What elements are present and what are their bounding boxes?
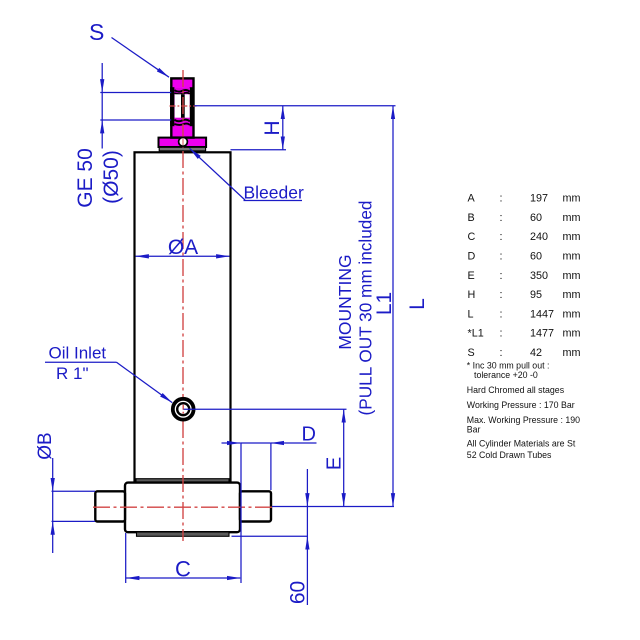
svg-text::: :	[500, 251, 503, 263]
dim L line	[392, 106, 394, 507]
svg-text:Max. Working Pressure : 190: Max. Working Pressure : 190	[467, 415, 580, 425]
svg-text:C: C	[175, 557, 191, 582]
dim OB upper shaft	[52, 458, 54, 491]
svg-text:Oil Inlet: Oil Inlet	[49, 344, 107, 363]
svg-text:tolerance +20 -0: tolerance +20 -0	[474, 370, 538, 380]
svg-text:S: S	[89, 19, 104, 45]
right trunnion pin	[240, 491, 271, 521]
svg-text:mm: mm	[563, 328, 581, 340]
svg-text:MOUNTING: MOUNTING	[335, 254, 355, 349]
svg-text:95: 95	[530, 289, 542, 301]
svg-text:L: L	[468, 308, 474, 320]
bearing bottom hatch band	[174, 118, 190, 126]
bleeder hole circle	[179, 137, 188, 146]
oil inlet port inner circle	[177, 403, 189, 415]
svg-text:ØB: ØB	[35, 432, 56, 459]
dim H bottom extension	[231, 149, 287, 151]
rod eye horizontal centerline	[170, 105, 197, 107]
svg-text:42: 42	[530, 347, 542, 359]
dim C line	[126, 577, 240, 579]
spec table	[468, 193, 581, 359]
bearing left wall	[170, 87, 174, 126]
svg-text:A: A	[468, 193, 476, 205]
svg-text:mm: mm	[563, 289, 581, 301]
dim D left shaft	[222, 442, 241, 444]
svg-text:H: H	[261, 120, 284, 135]
dim 60 lower shaft	[306, 536, 308, 605]
svg-text:60: 60	[530, 212, 542, 224]
svg-text:B: B	[468, 212, 475, 224]
svg-text:Bleeder: Bleeder	[244, 183, 304, 203]
svg-text::: :	[500, 289, 503, 301]
dim S mid line	[101, 93, 103, 121]
leader S	[112, 38, 170, 78]
svg-text:All Cylinder Materials are St: All Cylinder Materials are St	[467, 439, 576, 449]
svg-text:(PULL OUT 30 mm included: (PULL OUT 30 mm included	[356, 201, 376, 416]
left trunnion pin	[95, 491, 125, 521]
svg-text:mm: mm	[563, 231, 581, 243]
svg-text:S: S	[468, 347, 475, 359]
svg-text:60: 60	[530, 251, 542, 263]
svg-text:1477: 1477	[530, 328, 554, 340]
svg-text:mm: mm	[563, 347, 581, 359]
svg-text:* Inc 30 mm pull out :: * Inc 30 mm pull out :	[467, 360, 550, 370]
svg-text:240: 240	[530, 231, 548, 243]
dim S lower arrow shaft	[101, 120, 103, 149]
Oil Inlet underline	[45, 361, 117, 363]
svg-text:60: 60	[287, 581, 310, 604]
dim E line	[343, 409, 345, 506]
svg-text:mm: mm	[563, 193, 581, 205]
dim OB extension bottom	[52, 520, 96, 522]
notes text	[467, 360, 580, 460]
dim OB mid line	[52, 491, 54, 521]
svg-text:1447: 1447	[530, 308, 554, 320]
oil inlet port outer ring	[173, 399, 194, 420]
svg-text:mm: mm	[563, 270, 581, 282]
bearing top hatch band	[174, 88, 190, 94]
dim 60 upper shaft	[306, 469, 308, 507]
bleeder centerline overlay	[182, 139, 184, 145]
dim E top extension	[184, 408, 347, 410]
svg-text:Hard Chromed all stages: Hard Chromed all stages	[467, 385, 565, 395]
extension pin right end	[270, 443, 272, 490]
leader Bleeder	[190, 148, 246, 200]
svg-text:350: 350	[530, 270, 548, 282]
svg-text:D: D	[302, 424, 316, 446]
svg-text::: :	[500, 308, 503, 320]
bearing bore slot bar	[181, 94, 185, 118]
dim 60 bottom extension	[232, 535, 309, 537]
svg-text::: :	[500, 212, 503, 224]
dim S upper arrow shaft	[101, 63, 103, 93]
block bottom plate band	[137, 532, 230, 536]
bearing cavity white	[175, 94, 190, 118]
svg-text:(Ø50): (Ø50)	[100, 150, 123, 204]
cylinder bottom seal band	[136, 479, 229, 483]
svg-text:L1: L1	[373, 292, 396, 315]
bearing right wall	[190, 87, 195, 126]
dim 60 mid line	[306, 507, 308, 537]
cylinder tube body	[135, 152, 231, 482]
svg-text:*L1: *L1	[468, 328, 484, 340]
svg-text:Bar: Bar	[467, 424, 481, 434]
svg-text::: :	[500, 270, 503, 282]
leader Oil Inlet	[117, 362, 173, 402]
bottom mounting block	[125, 483, 240, 533]
dim D span line	[240, 442, 270, 444]
svg-text::: :	[500, 231, 503, 243]
svg-text:52 Cold Drawn Tubes: 52 Cold Drawn Tubes	[467, 450, 552, 460]
svg-text::: :	[500, 328, 503, 340]
svg-text:C: C	[468, 231, 476, 243]
svg-text:mm: mm	[563, 308, 581, 320]
oil inlet centerline overlay	[182, 405, 184, 414]
svg-text:ØA: ØA	[168, 236, 198, 259]
svg-text:GE 50: GE 50	[74, 148, 97, 208]
pin horizontal centerline	[93, 506, 273, 508]
svg-text::: :	[500, 193, 503, 205]
dim OB extension top	[52, 490, 96, 492]
svg-text:R 1": R 1"	[56, 364, 89, 383]
dim S extension top	[100, 92, 171, 94]
svg-text:E: E	[324, 457, 346, 470]
svg-text:mm: mm	[563, 212, 581, 224]
dim D right shaft	[271, 442, 317, 444]
dim C extension left	[125, 533, 127, 583]
svg-text:197: 197	[530, 193, 548, 205]
rod end flange	[159, 138, 207, 147]
extension block right edge	[240, 443, 242, 583]
svg-text:Working Pressure : 170 Bar: Working Pressure : 170 Bar	[467, 400, 575, 410]
svg-text:L: L	[406, 298, 429, 310]
svg-text:mm: mm	[563, 251, 581, 263]
Bleeder underline	[244, 200, 303, 202]
svg-text::: :	[500, 347, 503, 359]
dim H top extension	[194, 105, 395, 107]
vertical centerline	[182, 70, 184, 541]
svg-text:E: E	[468, 270, 475, 282]
rod gland gray band	[159, 147, 205, 151]
dim OB lower shaft	[52, 521, 54, 553]
rod end eye body	[171, 78, 193, 137]
dim OA line	[136, 255, 230, 257]
dim S extension bottom	[100, 119, 171, 121]
pin center extension right	[272, 506, 394, 508]
svg-text:H: H	[468, 289, 476, 301]
svg-text:D: D	[468, 251, 476, 263]
dim H line	[282, 106, 284, 150]
